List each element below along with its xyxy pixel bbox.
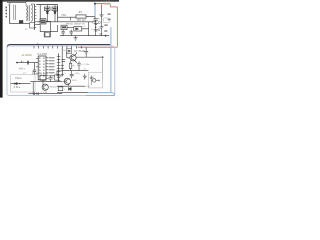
input arrow <box>16 62 18 64</box>
transistor Q2 <box>42 84 48 90</box>
red net tick <box>85 47 87 50</box>
regulator VR2 box <box>52 7 57 11</box>
bridge B1 box <box>40 19 46 24</box>
wire Q1 base vert <box>67 52 70 58</box>
IC1 box <box>38 56 46 80</box>
inline caps on bottom wire <box>33 92 38 95</box>
wire <box>82 22 89 36</box>
wire AC bottom <box>10 23 30 25</box>
diode D4 <box>15 82 18 84</box>
capacitor C8 <box>33 63 37 75</box>
relay box K2 <box>45 33 50 37</box>
left black sidebar <box>0 0 3 98</box>
wire left input <box>16 62 38 64</box>
wire mid bottom rail <box>30 81 62 83</box>
pin ticks below divider <box>34 46 81 49</box>
transformer T1 <box>26 3 35 22</box>
resistor R2 <box>69 63 72 68</box>
fuse F1 dark box <box>19 20 23 23</box>
svg-text:# U x: # U x <box>19 67 25 70</box>
capacitor C7 inline <box>28 61 29 65</box>
IC1 right pins <box>46 58 48 79</box>
regulator VR1 box <box>45 7 51 11</box>
wire verticals <box>33 80 43 93</box>
wire Q1 emitter run <box>76 56 102 58</box>
svg-text:RP1 4k7: RP1 4k7 <box>77 20 87 22</box>
wire to resistor <box>58 16 76 18</box>
svg-text:+47u: +47u <box>74 73 80 75</box>
capacitor C1 <box>94 19 98 20</box>
wire right rail <box>57 5 59 22</box>
svg-text:5V: 5V <box>100 34 103 36</box>
top window border <box>0 0 119 2</box>
rectifier top rail <box>36 4 57 6</box>
wire AC left vertical <box>9 6 11 24</box>
capacitor C11 <box>49 76 53 82</box>
junction dot <box>19 83 20 84</box>
svg-text:HR1: HR1 <box>62 15 67 17</box>
capacitor column C2 <box>100 4 104 35</box>
diode D5 <box>68 87 71 91</box>
blue net bottom edge <box>86 95 115 97</box>
resistor R4 <box>58 87 63 91</box>
transformer bottom connector box <box>30 23 35 28</box>
box R3 <box>57 71 63 76</box>
faint box VD <box>104 18 110 22</box>
capacitor C10 <box>77 61 81 70</box>
net label green <box>107 3 111 5</box>
wire loop 1 <box>36 25 57 32</box>
svg-text:4x 1N: 4x 1N <box>84 86 90 88</box>
red net right <box>78 5 118 48</box>
wire bottom rail mid <box>62 70 88 72</box>
svg-text:BC547: BC547 <box>50 87 57 89</box>
ground <box>74 36 78 41</box>
net label pink <box>104 3 106 5</box>
svg-text:C 10u: C 10u <box>83 64 90 66</box>
rectifier bottom rail <box>36 21 95 23</box>
wire resistor to node <box>86 16 95 18</box>
blue net right vertical <box>110 27 112 92</box>
P2 pin labels <box>61 65 64 75</box>
node junction dot <box>94 3 96 5</box>
IC1 pin labels <box>49 57 55 76</box>
blue net vertical <box>94 4 96 17</box>
crystal Y1 box <box>67 49 72 54</box>
connector P2 rail <box>58 53 60 81</box>
power rail mid <box>60 35 109 37</box>
transistor Q3 <box>64 78 70 84</box>
rail pin ticks <box>35 6 37 27</box>
junction tick <box>21 61 23 63</box>
wire AC top <box>7 2 26 4</box>
bottom wire to blue <box>57 92 88 94</box>
decoupling cap to red <box>84 51 88 58</box>
capacitor bank column C5 <box>95 20 97 35</box>
capacitor C9 <box>62 60 66 62</box>
svg-text:+U: +U <box>63 50 66 52</box>
svg-text:V 1/16: V 1/16 <box>41 92 48 94</box>
connector J1 double line <box>14 5 16 20</box>
inner gray box left <box>11 75 35 92</box>
capacitor C3 <box>61 30 64 36</box>
svg-text:X IN-u: X IN-u <box>14 87 21 89</box>
wire bottom left <box>11 83 31 85</box>
relay K1 symbol <box>93 79 96 82</box>
section frame <box>7 46 115 96</box>
svg-text:# Ax-u: # Ax-u <box>15 77 22 80</box>
box X2 <box>55 75 59 80</box>
blue net bottom run <box>88 93 115 96</box>
diode D2 <box>54 5 56 22</box>
P2 ticks <box>57 56 61 80</box>
IC1 left pins <box>36 58 38 74</box>
bottom wire <box>28 93 62 95</box>
left rail <box>61 48 63 71</box>
svg-text:IC7 78L05: IC7 78L05 <box>74 51 85 53</box>
resistor RP1 box <box>76 15 86 18</box>
toolbar legend text <box>101 1 110 2</box>
label AC IN vertical <box>6 7 8 18</box>
transistor Q1 <box>70 55 76 61</box>
node dot <box>102 56 104 58</box>
svg-text:IC1 AT89: IC1 AT89 <box>37 53 47 56</box>
wire loop 2 <box>44 21 50 37</box>
small labels right <box>104 13 110 31</box>
plug arrow <box>9 3 10 6</box>
wire Q1 collector <box>75 52 77 55</box>
capacitor C4 <box>70 30 73 36</box>
transformer secondary rail <box>34 4 36 30</box>
wire vertical <box>39 5 41 22</box>
gray vertical to box <box>102 57 104 80</box>
inner gray box right <box>88 72 102 88</box>
wire <box>67 26 74 28</box>
IC1 pin numbers <box>39 58 44 77</box>
svg-text:4x oNNN: 4x oNNN <box>22 54 32 57</box>
cap C13 <box>83 74 87 80</box>
red net <box>95 3 104 5</box>
box X1 <box>40 75 46 80</box>
wire row <box>57 85 85 87</box>
diode D3 box <box>74 27 82 31</box>
polarity circles <box>98 21 100 23</box>
junction tick <box>70 17 72 20</box>
section divider line <box>7 45 110 48</box>
capacitor C12 <box>70 71 74 79</box>
node dots <box>95 21 96 22</box>
regulator U2 box <box>61 25 67 29</box>
diode D1 <box>46 5 48 22</box>
